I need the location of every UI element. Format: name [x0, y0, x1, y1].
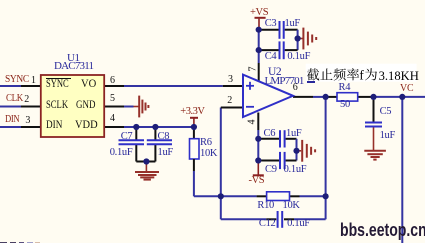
svg-text:3.18KH: 3.18KH: [379, 69, 419, 83]
svg-text:f: f: [359, 68, 364, 83]
